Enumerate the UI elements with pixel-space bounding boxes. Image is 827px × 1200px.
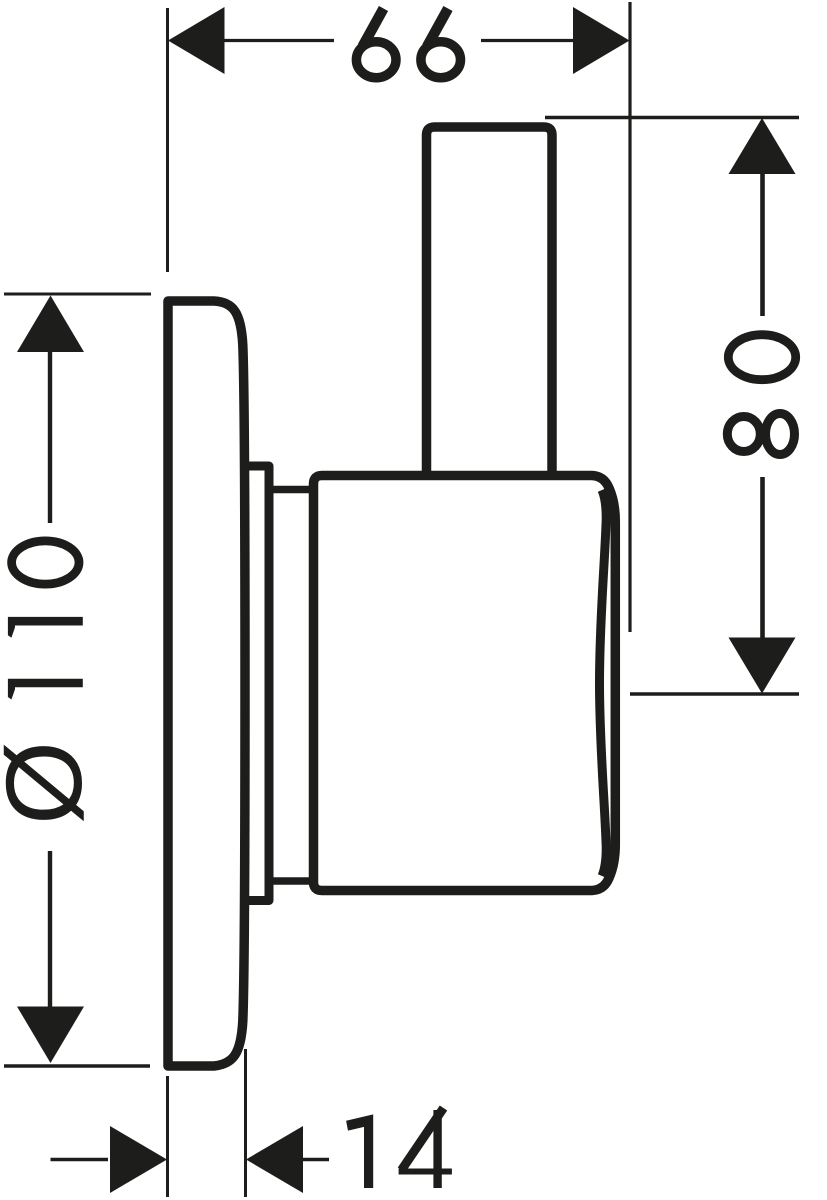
dimension line 14 left segment: [51, 1158, 109, 1161]
arrow up of dim 80: [729, 118, 796, 174]
dimension text 66: [356, 9, 460, 78]
dimension line 66 left segment: [224, 39, 334, 42]
escutcheon plate (side profile, domed): [168, 301, 245, 1066]
extension line bottom for dim 80: [630, 692, 799, 695]
inner contour arc of body cap face: [600, 490, 607, 876]
valve body outline: [314, 476, 616, 891]
dimension line 14 right segment: [303, 1158, 329, 1161]
arrow left of dim 14: [110, 1126, 167, 1193]
step line top (neck between sleeve and body): [269, 486, 314, 494]
step line bottom (neck between sleeve and body): [269, 877, 314, 885]
arrow up of dim 110: [17, 296, 84, 353]
arrow down of dim 110: [17, 1007, 84, 1064]
handle lever: [427, 127, 553, 475]
sleeve ring behind plate: [244, 466, 269, 901]
dimension line 110 upper segment: [48, 352, 52, 523]
dimension text diameter 110 (rotated): [0, 541, 104, 825]
extension line left for dim 66: [166, 8, 169, 272]
dimension text 14: [346, 1108, 452, 1188]
svg-text:Ø: Ø: [0, 741, 104, 825]
extension line right for dim 14: [244, 1049, 247, 1197]
extension line left for dim 14: [166, 1076, 169, 1197]
arrow left of dim 66: [168, 7, 225, 74]
extension line top for dim diameter 110: [4, 293, 151, 296]
arrow right of dim 14: [246, 1126, 303, 1193]
arrow down of dim 80: [729, 638, 796, 694]
dimension line 80 upper segment: [760, 174, 765, 316]
arrow right of dim 66: [573, 7, 630, 74]
dimension line 80 lower segment: [760, 477, 765, 638]
extension line right for dim 66: [628, 2, 631, 632]
dimension text 80 (rotated): [727, 335, 795, 455]
dimension line 66 right segment: [481, 39, 574, 42]
extension line top for dim 80: [545, 116, 799, 119]
dimension line 110 lower segment: [48, 851, 52, 1007]
extension line bottom for dim diameter 110: [4, 1064, 150, 1067]
